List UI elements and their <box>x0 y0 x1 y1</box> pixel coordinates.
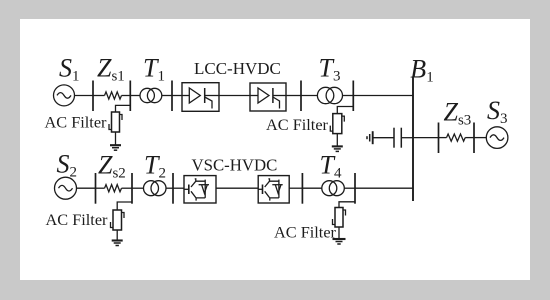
wire <box>122 187 133 189</box>
node tick (bus bar) left of Zs1 <box>92 81 94 112</box>
svg-text:VSC-HVDC: VSC-HVDC <box>192 155 278 174</box>
wire filter to ground <box>338 227 340 239</box>
wire filter to ground <box>336 134 338 147</box>
wire T1 to node <box>162 95 172 97</box>
wire T4 to node <box>344 187 355 189</box>
AC filter branch at S1 bus: tap wire <box>116 105 131 112</box>
svg-text:AC Filter: AC Filter <box>45 113 108 132</box>
wire S1 to node <box>75 95 94 97</box>
IGBT valve symbol 1 <box>184 179 209 201</box>
wire filter to ground <box>115 132 117 145</box>
wire S2 to node <box>77 187 96 189</box>
node tick left of Zs2 <box>95 173 97 204</box>
capacitor C1 plates <box>394 128 401 148</box>
wire <box>122 95 131 97</box>
svg-text:AC Filter: AC Filter <box>274 223 337 242</box>
AC filter element (T4 side) <box>333 208 346 228</box>
transformer T4 <box>322 181 345 196</box>
transformer T2 <box>144 181 167 196</box>
wire <box>465 137 474 139</box>
VSC converter valve box 2 <box>258 176 290 203</box>
bus B1 <box>412 77 414 201</box>
node tick right of Zs3 <box>473 123 475 154</box>
wire into rectifier <box>172 95 182 97</box>
wire T3 to node <box>343 95 354 97</box>
wire ground to capacitor <box>373 137 394 139</box>
wire to S3 <box>474 137 486 139</box>
wire node to bus B1 <box>353 95 413 97</box>
LCC rectifier valve box 1 <box>182 83 219 112</box>
thyristor V2 <box>258 88 269 103</box>
wire <box>93 95 105 97</box>
wire inverter to node <box>286 95 301 97</box>
AC filter element (T3 side) <box>330 114 344 134</box>
resistor Zs2 <box>105 185 122 192</box>
AC filter element (tuned filter box) <box>109 112 122 132</box>
wire <box>96 187 105 189</box>
node tick before VSC rectifier <box>172 173 174 204</box>
AC filter branch at T3: tap wire <box>337 107 353 114</box>
node tick after inverter <box>300 81 302 112</box>
source S1 <box>54 85 75 106</box>
transformer T3 <box>317 87 342 103</box>
DC line wire between valves <box>219 95 250 97</box>
wire to T3 <box>301 95 317 97</box>
wire node to bus B1 <box>355 187 413 189</box>
svg-text:LCC-HVDC: LCC-HVDC <box>194 59 281 78</box>
source S2 <box>55 177 77 199</box>
ground below T4 filter <box>333 239 346 244</box>
AC filter element (S2 side) <box>111 210 125 230</box>
wire <box>439 137 447 139</box>
wire into VSC <box>173 187 184 189</box>
source S3 <box>486 127 508 149</box>
ground below S2 filter <box>112 241 123 246</box>
wire VSC to node <box>289 187 302 189</box>
wire capacitor to bus B1 <box>401 137 413 139</box>
ground below T3 filter <box>332 146 343 151</box>
wire to T2 <box>132 187 144 189</box>
svg-text:AC Filter: AC Filter <box>46 210 109 229</box>
ground below S1 filter <box>110 145 121 150</box>
node tick before rectifier <box>171 81 173 112</box>
node tick right of Zs2 <box>131 173 133 204</box>
transformer T1 <box>140 88 162 102</box>
node tick right of Zs1 <box>129 81 131 112</box>
svg-text:AC Filter: AC Filter <box>266 115 329 134</box>
VSC converter valve box 1 <box>184 176 216 203</box>
resistor Zs3 <box>447 134 466 141</box>
shunt capacitor branch on B1: ground (rotated) <box>367 131 373 144</box>
node tick after VSC inverter <box>301 173 303 204</box>
node tick left of Zs3 <box>438 123 440 154</box>
node tick after T4 <box>354 173 356 204</box>
IGBT valve symbol 2 <box>258 179 283 201</box>
AC filter branch at T4: tap wire <box>339 202 355 208</box>
thyristor V1 <box>189 88 200 103</box>
LCC inverter valve box 2 <box>250 83 286 111</box>
wire T2 to node <box>166 187 173 189</box>
wire to T4 <box>302 187 321 189</box>
wire to T1 <box>130 95 140 97</box>
DC line wire between VSC valves <box>216 187 258 189</box>
wire bus B1 to node <box>413 137 439 139</box>
node tick after T3 <box>352 81 354 112</box>
AC filter branch at S2 bus: tap wire <box>117 202 132 210</box>
resistor Zs1 <box>105 92 122 99</box>
wire filter to ground <box>116 230 118 240</box>
